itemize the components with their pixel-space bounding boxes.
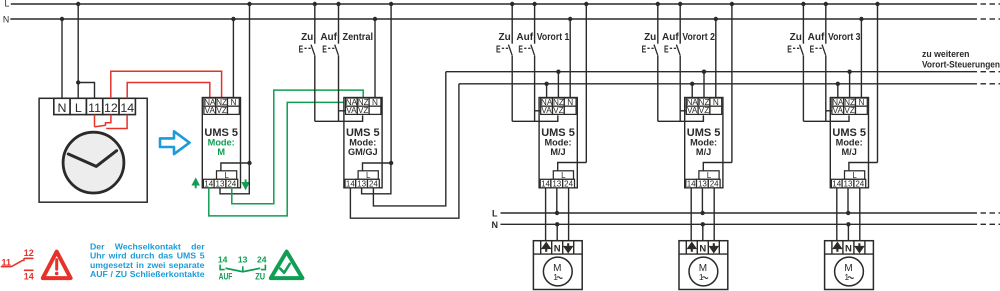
pushbutton Auf Vorort 1 (with L bus junction) (518, 2, 536, 122)
svg-text:M/J: M/J (550, 147, 565, 157)
svg-text:14: 14 (218, 254, 228, 264)
junction on motor L bus at U3 13 (555, 211, 559, 215)
wire U3 output 14 to motor M1 up (545, 188, 547, 241)
junction on motor N bus at M1 (555, 222, 559, 226)
junction on N bus at U5 N (859, 17, 863, 21)
blue arrow symbol (clock converted by UMS 5) (160, 131, 190, 154)
motor M1 terminal strip (533, 241, 582, 254)
svg-text:AUF: AUF (219, 271, 233, 281)
motor M2 box (679, 241, 728, 290)
junction on motor L bus at U4 13 (700, 211, 704, 215)
junction on group bus ZU at U3 (556, 70, 560, 74)
motor M1 label M 1~ (553, 263, 562, 282)
junction on clock L wire (branch to 11) (76, 80, 80, 84)
svg-text:13: 13 (238, 254, 248, 264)
wire U5 output 14 to motor M3 up (836, 188, 838, 241)
svg-text:N: N (492, 220, 499, 230)
svg-text:12: 12 (24, 248, 34, 258)
svg-text:12: 12 (104, 101, 118, 115)
U5 L terminal box (845, 171, 865, 180)
U1 green up arrow (AUF output) (193, 179, 198, 188)
junction on group bus AUF at U5 (836, 82, 840, 86)
wire U5 L feed corner to L box (849, 163, 878, 171)
svg-text:N: N (57, 101, 66, 115)
check triangle symbol (271, 252, 303, 279)
junction on group bus ZU at U4 (702, 70, 706, 74)
svg-text:E: E (322, 43, 327, 55)
annotation changeover contact 11-12-14 (red) (1, 248, 34, 281)
wire motor M2 N terminal to N bus (702, 224, 704, 240)
U3 label UMS 5 (541, 127, 575, 139)
net label L (motor supply bus) (492, 209, 498, 219)
pushbutton Zu Vorort 3 (with L bus junction) (787, 2, 805, 122)
U4 label UMS 5 (687, 127, 721, 139)
label Zu (Vorort 1) (498, 32, 510, 43)
U5 input terminals NA NZ N / VA VZ (832, 98, 867, 115)
wire U4 L feed corner to L box (703, 163, 732, 171)
wire U3 terminal 13 to motor L bus (556, 188, 558, 213)
pushbutton Auf Zentral (with L bus junction) (322, 2, 340, 122)
junction on L bus at U5 L feed (875, 2, 879, 6)
label Auf (Vorort 1) (516, 32, 533, 43)
svg-text:Mode:: Mode: (690, 137, 717, 147)
wire U4 output 24 to motor M2 down (713, 188, 715, 241)
svg-text:Vorort 1: Vorort 1 (537, 32, 570, 43)
wire U5 output 24 to motor M3 down (859, 188, 861, 241)
svg-text:N: N (845, 244, 852, 255)
svg-text:Mode:: Mode: (544, 137, 571, 147)
time switch clock box (39, 98, 147, 202)
svg-text:VA: VA (541, 106, 552, 115)
wire U5 L feed from L bus (877, 4, 879, 163)
svg-text:Auf: Auf (320, 32, 337, 43)
svg-text:VZ: VZ (358, 106, 368, 115)
wire group bus ZU to U4 NZ (703, 72, 705, 98)
U1 mode value M (217, 147, 225, 157)
junction on L bus at clock L (76, 2, 80, 6)
svg-text:Zu: Zu (644, 32, 656, 43)
label Auf (Vorort 3) (808, 32, 825, 43)
note text (blue) (90, 241, 205, 279)
svg-text:Auf: Auf (516, 32, 533, 43)
label zu weiteren Vorort-Steuerungen (922, 49, 1000, 69)
junction on N bus at U1 N (231, 17, 235, 21)
wire Zu-Vorort1 to U3 VZ (512, 115, 558, 121)
svg-text:VZ: VZ (699, 106, 709, 115)
U2 label UMS 5 (346, 127, 380, 139)
pushbutton Zu Zentral (with L bus junction) (299, 2, 317, 122)
wire U5 terminal 13 to motor L bus (847, 188, 849, 213)
junction on motor N bus at M3 (846, 222, 850, 226)
wire U5 N terminal to N bus (860, 19, 862, 98)
wire U1 terminal 13 loop to L node (220, 163, 249, 194)
svg-text:zu weiteren: zu weiteren (922, 49, 970, 59)
wire U2 terminal 13 loop to L node (362, 163, 391, 194)
motor M2 symbol circle (689, 257, 718, 286)
svg-text:VA: VA (205, 106, 216, 115)
U3 mode value M/J (550, 147, 565, 157)
motor M3 label M 1~ (844, 263, 853, 282)
motor M1 up arrow terminal (543, 243, 550, 251)
motor M3 down arrow terminal (856, 243, 863, 251)
svg-text:E: E (642, 43, 647, 55)
junction on N bus at U3 N (568, 17, 572, 21)
wire U4 L feed from L bus (731, 4, 733, 163)
junction on L bus at U3 L feed (584, 2, 588, 6)
svg-text:Zentral: Zentral (343, 32, 374, 43)
motor M3 N terminal label (845, 244, 852, 255)
svg-text:GM/GJ: GM/GJ (348, 147, 378, 157)
svg-text:14: 14 (346, 179, 355, 188)
svg-text:14: 14 (204, 179, 213, 188)
wire L bus (motor supply) (501, 212, 1000, 214)
wire U3 L feed from L bus (585, 4, 587, 163)
label Auf (Zentral) (320, 32, 337, 43)
wire U2 L feed from L bus (390, 4, 392, 163)
U4 mode value M/J (696, 147, 711, 157)
svg-text:VA: VA (833, 106, 844, 115)
junction on L bus at U1 L feed (247, 2, 251, 6)
U5 mode value M/J (842, 147, 857, 157)
wire Zu-Zentral to U2 VZ (315, 115, 363, 121)
wire U4 N terminal to N bus (715, 19, 717, 98)
junction on group bus ZU at U5 (847, 70, 851, 74)
pushbutton Auf Vorort 2 (with L bus junction) (664, 2, 682, 122)
U1 L terminal box (217, 171, 237, 180)
motor M2 down arrow terminal (711, 243, 718, 251)
svg-text:L: L (492, 209, 498, 219)
wire L bus (top) (11, 3, 1000, 5)
wire U3 N terminal to N bus (569, 19, 571, 98)
svg-text:Zu: Zu (301, 32, 313, 43)
svg-text:24: 24 (564, 179, 573, 188)
junction on N bus at clock N (60, 17, 64, 21)
svg-text:E: E (299, 43, 304, 55)
wire U1 L node to L box (221, 163, 250, 171)
wire Auf-Vorort2 to U4 VA (680, 110, 686, 112)
svg-text:E: E (664, 43, 669, 55)
svg-text:Zu: Zu (790, 32, 802, 43)
motor M2 N terminal label (699, 244, 706, 255)
wire clock 14 to U1 NA (red) (127, 83, 210, 99)
svg-text:Mode:: Mode: (349, 137, 376, 147)
svg-text:14: 14 (687, 179, 696, 188)
motor M1 symbol circle (543, 257, 572, 286)
wire U1 output 24 to U2 NZ (green) (232, 90, 363, 204)
svg-text:11: 11 (1, 257, 11, 267)
svg-text:13: 13 (698, 179, 707, 188)
wire clock 12 to U1 NZ (red) (111, 71, 222, 98)
svg-text:E: E (810, 43, 815, 55)
svg-text:14: 14 (541, 179, 550, 188)
junction on motor L bus at U5 13 (846, 211, 850, 215)
wire group bus AUF (to Vorort NA inputs) (459, 83, 1000, 85)
relay module U4 body (UMS 5) (685, 98, 723, 188)
svg-text:VZ: VZ (553, 106, 563, 115)
wire clock L terminal to L bus (77, 4, 79, 98)
junction on group bus AUF at U4 (690, 82, 694, 86)
junction on L bus at U2 L feed (389, 2, 393, 6)
motor M1 box (533, 241, 582, 290)
svg-text:Vorort 2: Vorort 2 (682, 32, 715, 43)
U3 label Mode (544, 137, 571, 147)
U3 input terminals NA NZ N / VA VZ (541, 98, 576, 115)
svg-text:24: 24 (710, 179, 719, 188)
svg-text:14: 14 (832, 179, 841, 188)
svg-text:13: 13 (216, 179, 225, 188)
junction at U1 L node (247, 161, 251, 165)
U1 label Mode (208, 137, 235, 147)
svg-text:13: 13 (357, 179, 366, 188)
U3 output terminals 14 13 24 (540, 179, 574, 188)
motor M3 terminal strip (825, 241, 874, 254)
svg-text:Zu: Zu (498, 32, 510, 43)
svg-text:Auf: Auf (808, 32, 825, 43)
net label L (top bus) (4, 0, 9, 9)
wire U2 N terminal to N bus (374, 19, 376, 98)
U5 label Mode (836, 137, 863, 147)
label Vorort 2 (682, 32, 715, 43)
clock terminal strip N L 11 12 14 (54, 98, 136, 115)
junction on motor N bus at M2 (701, 222, 705, 226)
svg-text:24: 24 (257, 254, 267, 264)
svg-text:M: M (217, 147, 225, 157)
U4 L terminal box (699, 171, 719, 180)
svg-text:24: 24 (369, 179, 378, 188)
wire group bus ZU (to Vorort NZ inputs) (446, 71, 1000, 73)
wire U1 L feed from L bus (249, 4, 251, 163)
wire group bus ZU to U5 NZ (849, 72, 851, 98)
U2 input terminals NA NZ N / VA VZ (346, 98, 381, 115)
svg-text:E: E (787, 43, 792, 55)
motor M1 N terminal label (554, 244, 561, 255)
U5 output terminals 14 13 24 (831, 179, 865, 188)
net label N (top bus) (3, 14, 9, 24)
svg-text:24: 24 (227, 179, 236, 188)
wire branch L to clock terminal 11 (78, 83, 94, 99)
wire group bus AUF to U3 NA (546, 84, 548, 98)
svg-text:14: 14 (120, 101, 134, 115)
U1 output terminals 14 13 24 (203, 179, 237, 188)
relay module U5 body (UMS 5) (830, 98, 868, 188)
svg-text:VZ: VZ (844, 106, 854, 115)
svg-text:Mode:: Mode: (836, 137, 863, 147)
svg-text:13: 13 (844, 179, 853, 188)
junction on L bus at U4 L feed (730, 2, 734, 6)
wire U2 L node to L box (363, 163, 392, 171)
svg-text:24: 24 (855, 179, 864, 188)
svg-text:N: N (554, 244, 561, 255)
svg-text:Vorort 3: Vorort 3 (828, 32, 861, 43)
wire U1 output 14 to U2 NA (green) (209, 102, 346, 215)
svg-text:M/J: M/J (696, 147, 711, 157)
U4 output terminals 14 13 24 (686, 179, 720, 188)
svg-text:L: L (75, 101, 82, 115)
svg-text:AUF / ZU Schließerkontakte: AUF / ZU Schließerkontakte (90, 269, 205, 279)
U4 label Mode (690, 137, 717, 147)
motor M3 up arrow terminal (834, 243, 841, 251)
svg-text:E: E (496, 43, 501, 55)
svg-text:Vorort-Steuerungen: Vorort-Steuerungen (922, 59, 1000, 69)
motor M3 box (825, 241, 874, 290)
wire U4 terminal 13 to motor L bus (701, 188, 703, 213)
wire U3 output 24 to motor M1 down (568, 188, 570, 241)
svg-text:L: L (4, 0, 9, 9)
warning triangle symbol (43, 252, 71, 279)
junction on group bus AUF at U3 (544, 82, 548, 86)
svg-text:VA: VA (687, 106, 698, 115)
label Auf (Vorort 2) (662, 32, 679, 43)
motor M3 symbol circle (835, 257, 864, 286)
motor M2 up arrow terminal (689, 243, 696, 251)
wire U2 output 24 to group bus ZU (373, 72, 445, 206)
svg-text:N: N (3, 14, 9, 24)
wire N bus (top) (10, 18, 1000, 20)
annotation AUF/ZU contacts 14-13-24 (green) (218, 254, 267, 281)
U5 label UMS 5 (832, 127, 866, 139)
U1 input terminals NA NZ N / VA VZ (204, 98, 239, 115)
wire Zu-Vorort2 to U4 VZ (658, 115, 704, 121)
U1 green down arrow (ZU output) (243, 179, 248, 188)
U3 L terminal box (553, 171, 573, 180)
label Vorort 3 (828, 32, 861, 43)
wire U4 output 14 to motor M2 up (690, 188, 692, 241)
label Zu (Vorort 3) (790, 32, 802, 43)
wire group bus ZU to U3 NZ (557, 72, 559, 98)
wire Auf-Vorort1 to U3 VA (535, 110, 541, 112)
wire group bus AUF to U5 NA (837, 84, 839, 98)
pushbutton Zu Vorort 1 (with L bus junction) (496, 2, 514, 122)
motor M2 terminal strip (679, 241, 728, 254)
wire N bus (motor supply) (501, 223, 1000, 225)
U2 output terminals 14 13 24 (345, 179, 379, 188)
relay module U2 body (UMS 5) (344, 98, 382, 188)
wire motor M1 N terminal to N bus (556, 224, 558, 240)
svg-text:13: 13 (552, 179, 561, 188)
wire Auf-Zentral to U2 VA (339, 110, 346, 112)
svg-text:11: 11 (88, 101, 101, 115)
junction on N bus at U2 N (373, 17, 377, 21)
motor M1 down arrow terminal (565, 243, 572, 251)
clock internal changeover contact 11-12-14 (red) (95, 115, 128, 129)
clock hands (68, 151, 116, 167)
junction on N bus at U4 N (714, 17, 718, 21)
relay module U1 body (UMS 5) (202, 98, 240, 188)
svg-text:VZ: VZ (216, 106, 226, 115)
wire group bus AUF to U4 NA (691, 84, 693, 98)
label Zu (Zentral) (301, 32, 313, 43)
clock face (63, 132, 124, 193)
wire Auf-Vorort3 to U5 VA (826, 110, 832, 112)
wire U3 L feed corner to L box (558, 163, 587, 171)
svg-text:Auf: Auf (662, 32, 679, 43)
svg-text:VA: VA (346, 106, 357, 115)
svg-text:N: N (699, 244, 706, 255)
relay module U3 body (UMS 5) (539, 98, 577, 188)
motor M2 label M 1~ (699, 263, 708, 282)
svg-text:E: E (518, 43, 523, 55)
U4 input terminals NA NZ N / VA VZ (686, 98, 721, 115)
U2 label Mode (349, 137, 376, 147)
wire motor M3 N terminal to N bus (847, 224, 849, 240)
label Vorort 1 (537, 32, 570, 43)
net label N (motor supply bus) (492, 220, 499, 230)
junction at U2 L node (389, 161, 393, 165)
wire U2 output 14 to group bus AUF (350, 84, 459, 218)
wire U1 N terminal to N bus (232, 19, 234, 98)
svg-text:M/J: M/J (842, 147, 857, 157)
label Zu (Vorort 2) (644, 32, 656, 43)
pushbutton Auf Vorort 3 (with L bus junction) (810, 2, 828, 122)
label Zentral (343, 32, 374, 43)
wire Zu-Vorort3 to U5 VZ (803, 115, 849, 121)
svg-text:14: 14 (24, 271, 34, 281)
wire clock N terminal to N bus (61, 19, 63, 98)
U2 L terminal box (358, 171, 378, 180)
svg-text:ZU: ZU (255, 271, 265, 281)
svg-text:Mode:: Mode: (208, 137, 235, 147)
U1 label UMS 5 (204, 127, 238, 139)
pushbutton Zu Vorort 2 (with L bus junction) (642, 2, 660, 122)
U2 mode value GM/GJ (348, 147, 378, 157)
